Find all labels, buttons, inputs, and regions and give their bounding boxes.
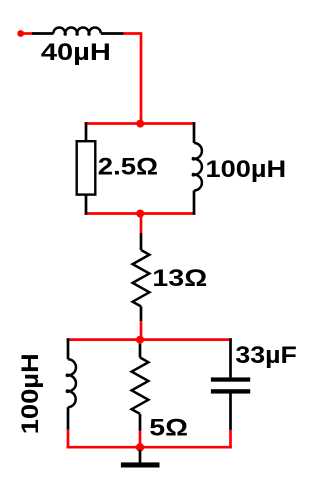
svg-text:5Ω: 5Ω bbox=[149, 415, 188, 442]
svg-text:100µH: 100µH bbox=[206, 156, 287, 183]
svg-text:2.5Ω: 2.5Ω bbox=[98, 153, 158, 180]
svg-text:33µF: 33µF bbox=[235, 342, 297, 369]
svg-text:40µH: 40µH bbox=[41, 39, 111, 66]
svg-text:100µH: 100µH bbox=[17, 353, 44, 434]
svg-text:13Ω: 13Ω bbox=[152, 265, 207, 292]
